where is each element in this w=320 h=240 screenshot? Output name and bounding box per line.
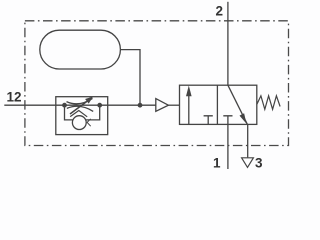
svg-text:1: 1 bbox=[213, 156, 221, 171]
svg-text:2: 2 bbox=[216, 3, 224, 18]
svg-text:3: 3 bbox=[255, 156, 263, 171]
svg-text:12: 12 bbox=[7, 90, 22, 105]
